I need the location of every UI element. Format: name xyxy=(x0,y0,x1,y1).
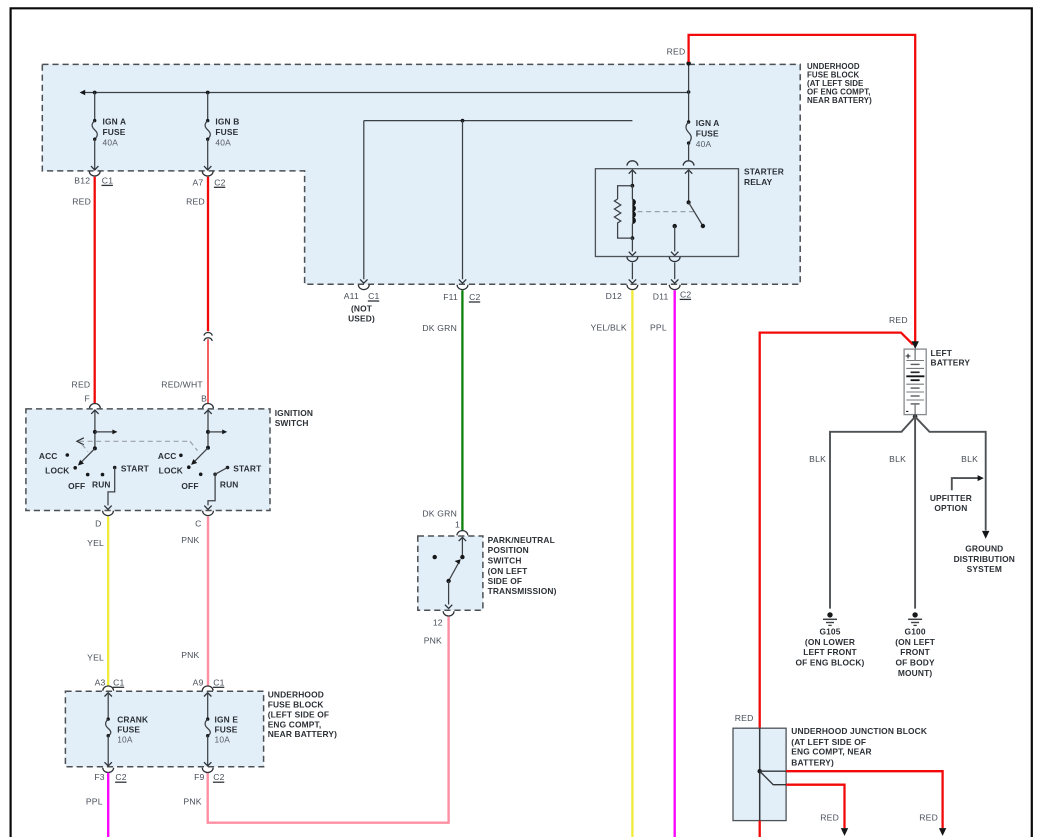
svg-text:40A: 40A xyxy=(215,138,231,148)
svg-text:OFF: OFF xyxy=(181,481,198,491)
ignition switch right half (terminal B to C) xyxy=(158,410,262,510)
svg-text:RED: RED xyxy=(72,380,91,390)
fuse IGN A 40A (left) xyxy=(91,93,126,170)
svg-text:LOCK: LOCK xyxy=(159,466,183,476)
ignition switch linkage (dashed) xyxy=(77,438,198,452)
node: bus corner at IGN A right xyxy=(687,90,691,94)
wire YEL from D to A3 xyxy=(87,517,108,686)
svg-text:C2: C2 xyxy=(115,772,126,782)
relay coil branch xyxy=(629,170,636,256)
svg-text:RELAY: RELAY xyxy=(744,177,773,187)
pin A9 C1 xyxy=(193,677,225,691)
svg-text:C2: C2 xyxy=(469,292,480,302)
svg-text:RED: RED xyxy=(72,196,91,206)
svg-text:UNDERHOOD: UNDERHOOD xyxy=(268,690,324,700)
relay switch branch xyxy=(671,170,705,256)
svg-text:LEFT: LEFT xyxy=(931,348,953,358)
svg-text:C1: C1 xyxy=(368,291,379,301)
svg-text:DISTRIBUTION: DISTRIBUTION xyxy=(954,554,1015,564)
wire RED branch 1 xyxy=(786,771,946,836)
svg-text:ENG COMPT, NEAR: ENG COMPT, NEAR xyxy=(791,747,871,757)
pin D12 xyxy=(606,285,638,301)
svg-text:BLK: BLK xyxy=(809,454,826,464)
svg-text:12: 12 xyxy=(433,618,443,628)
svg-text:YEL: YEL xyxy=(87,538,104,548)
pin A7 C2 xyxy=(192,171,225,187)
svg-text:MOUNT): MOUNT) xyxy=(898,668,932,678)
wire PPL from F3 xyxy=(86,773,108,837)
node F11 tap xyxy=(461,119,465,123)
wire DK GRN from F11 to park/neutral switch pin 1 xyxy=(422,290,462,531)
wire YEL/BLK from D12 xyxy=(591,290,633,837)
svg-text:POSITION: POSITION xyxy=(488,545,529,555)
svg-text:GROUND: GROUND xyxy=(965,544,1003,554)
svg-text:YEL/BLK: YEL/BLK xyxy=(591,323,627,333)
wire RED from junction block up to battery xyxy=(760,315,913,728)
svg-text:40A: 40A xyxy=(103,138,119,148)
wire: relay control line to A11/F11 xyxy=(364,120,633,122)
wire: feed bus inside fuse block xyxy=(80,90,689,95)
svg-text:BATTERY: BATTERY xyxy=(931,358,971,368)
svg-text:D: D xyxy=(95,518,101,528)
svg-text:C1: C1 xyxy=(213,677,224,687)
wire RED branch 2 xyxy=(786,785,848,836)
svg-text:PNK: PNK xyxy=(183,797,201,807)
wire down to A11 xyxy=(360,121,367,284)
svg-text:40A: 40A xyxy=(696,139,712,149)
svg-text:NEAR BATTERY): NEAR BATTERY) xyxy=(807,96,872,105)
svg-text:OPTION: OPTION xyxy=(934,503,967,513)
svg-text:RUN: RUN xyxy=(92,479,111,489)
svg-text:PPL: PPL xyxy=(650,323,667,333)
svg-text:D11: D11 xyxy=(653,291,669,301)
svg-text:PNK: PNK xyxy=(181,535,199,545)
svg-text:OF BODY: OF BODY xyxy=(895,658,934,668)
svg-text:RED: RED xyxy=(735,713,754,723)
wire RED junction block lower exit xyxy=(759,821,761,837)
svg-text:UNDERHOOD JUNCTION BLOCK: UNDERHOOD JUNCTION BLOCK xyxy=(791,726,927,736)
wire PNK from pin 12 routed to F9 xyxy=(208,617,449,823)
fuse IGN A 40A (right) xyxy=(686,63,720,160)
svg-text:NEAR BATTERY): NEAR BATTERY) xyxy=(268,729,337,739)
pin 12 xyxy=(433,611,454,627)
ignition switch left half (terminal F to D) xyxy=(39,410,150,510)
svg-text:C2: C2 xyxy=(214,177,225,187)
svg-text:(LEFT SIDE OF: (LEFT SIDE OF xyxy=(268,710,330,720)
pin F9 C2 xyxy=(194,768,225,783)
svg-text:(NOT: (NOT xyxy=(351,304,373,314)
svg-text:RED: RED xyxy=(889,315,908,325)
svg-text:(ON LOWER: (ON LOWER xyxy=(805,637,855,647)
svg-text:FUSE: FUSE xyxy=(215,127,238,137)
svg-text:RED/WHT: RED/WHT xyxy=(161,380,203,390)
svg-text:FUSE BLOCK: FUSE BLOCK xyxy=(268,700,324,710)
svg-text:IGN E: IGN E xyxy=(215,714,239,724)
ground distribution system arrow xyxy=(954,531,1015,574)
svg-text:PPL: PPL xyxy=(86,797,103,807)
ignition switch block xyxy=(26,409,270,511)
pin bump coil top xyxy=(627,161,638,166)
svg-text:D12: D12 xyxy=(606,291,622,301)
svg-text:LEFT FRONT: LEFT FRONT xyxy=(803,647,857,657)
svg-text:OFF: OFF xyxy=(68,481,85,491)
svg-text:(ON LEFT: (ON LEFT xyxy=(488,566,529,576)
svg-text:F11: F11 xyxy=(443,292,458,302)
svg-text:(ON LEFT: (ON LEFT xyxy=(895,637,936,647)
svg-text:F9: F9 xyxy=(194,772,204,782)
relay coil parallel resistor xyxy=(614,186,632,238)
svg-text:RED: RED xyxy=(820,813,839,823)
node: red feed junction on block edge xyxy=(686,61,691,66)
wire relay switch out to D11 xyxy=(671,263,678,284)
wire BLK battery negative distribution xyxy=(809,415,986,609)
fuse IGN B 40A xyxy=(204,93,239,170)
wire PPL from D11 xyxy=(650,290,675,837)
svg-text:SWITCH: SWITCH xyxy=(275,418,309,428)
wire PNK from C to A9 xyxy=(181,517,208,686)
svg-text:F: F xyxy=(85,393,90,403)
svg-text:RED: RED xyxy=(667,46,686,56)
svg-text:TRANSMISSION): TRANSMISSION) xyxy=(488,586,557,596)
starter relay box xyxy=(595,169,738,257)
svg-text:UPFITTER: UPFITTER xyxy=(930,493,972,503)
svg-text:DK GRN: DK GRN xyxy=(422,323,457,333)
svg-text:IGN A: IGN A xyxy=(696,118,720,128)
pin D xyxy=(95,511,113,529)
svg-text:RED: RED xyxy=(919,813,938,823)
svg-text:ACC: ACC xyxy=(39,451,58,461)
pin A11 C1 (not used) xyxy=(344,285,380,324)
svg-text:A9: A9 xyxy=(193,677,204,687)
fuse IGN E 10A xyxy=(204,692,238,766)
svg-text:C: C xyxy=(195,518,201,528)
svg-text:DK GRN: DK GRN xyxy=(422,509,457,519)
pin bump B xyxy=(203,404,214,409)
svg-text:STARTER: STARTER xyxy=(744,166,784,176)
svg-text:BLK: BLK xyxy=(961,454,978,464)
svg-text:C1: C1 xyxy=(102,175,113,185)
svg-text:1: 1 xyxy=(455,520,460,530)
ground G105 xyxy=(796,612,865,667)
svg-text:(AT LEFT SIDE OF: (AT LEFT SIDE OF xyxy=(791,737,866,747)
svg-text:G100: G100 xyxy=(905,626,926,636)
svg-text:RUN: RUN xyxy=(220,480,239,490)
svg-text:BLK: BLK xyxy=(889,454,906,464)
node: bus tap IGN B xyxy=(206,91,210,95)
left battery xyxy=(904,348,970,417)
svg-text:A7: A7 xyxy=(192,177,203,187)
wire down to F11 xyxy=(459,121,466,284)
svg-text:SYSTEM: SYSTEM xyxy=(967,564,1002,574)
svg-text:USED): USED) xyxy=(348,314,375,324)
wire relay coil out to D12 xyxy=(629,263,636,284)
svg-text:PNK: PNK xyxy=(424,636,442,646)
underhood fuse block (lower, left side of eng compt near battery) xyxy=(65,691,263,767)
svg-text:OF ENG BLOCK): OF ENG BLOCK) xyxy=(796,658,865,668)
svg-text:FRONT: FRONT xyxy=(900,647,930,657)
underhood junction block xyxy=(733,713,927,821)
svg-text:IGN B: IGN B xyxy=(215,117,239,127)
pin D11 C2 xyxy=(653,285,692,302)
park/neutral position switch xyxy=(418,536,483,610)
svg-text:B: B xyxy=(201,393,207,403)
svg-text:ACC: ACC xyxy=(158,451,177,461)
upfitter option tap xyxy=(930,475,984,513)
svg-text:START: START xyxy=(233,464,262,474)
svg-text:PNK: PNK xyxy=(181,650,199,660)
svg-text:C2: C2 xyxy=(213,772,224,782)
wire RED from fuse block to battery (top) xyxy=(667,35,916,342)
svg-text:LOCK: LOCK xyxy=(45,466,69,476)
ground G100 xyxy=(895,612,936,678)
svg-text:PARK/NEUTRAL: PARK/NEUTRAL xyxy=(488,535,555,545)
svg-text:RED: RED xyxy=(186,196,205,206)
svg-text:SIDE OF: SIDE OF xyxy=(488,576,523,586)
svg-text:FUSE: FUSE xyxy=(696,128,719,138)
svg-text:C2: C2 xyxy=(680,289,691,299)
svg-text:SWITCH: SWITCH xyxy=(488,556,522,566)
svg-text:FUSE: FUSE xyxy=(215,724,238,734)
pin 1 xyxy=(455,520,468,536)
svg-text:FUSE: FUSE xyxy=(103,127,126,137)
svg-text:F3: F3 xyxy=(94,772,104,782)
wire RED / RED-WHT from A7 to ignition switch B with break xyxy=(161,177,212,404)
park/neutral switch contacts xyxy=(433,537,467,609)
wire RED from B12 to ignition switch F xyxy=(72,177,95,404)
relay dashed linkage xyxy=(638,211,698,213)
svg-text:FUSE: FUSE xyxy=(117,724,140,734)
node: battery negative xyxy=(913,414,918,419)
svg-text:IGNITION: IGNITION xyxy=(275,408,313,418)
svg-text:A11: A11 xyxy=(344,291,359,301)
svg-text:ENG COMPT,: ENG COMPT, xyxy=(268,719,322,729)
svg-text:B12: B12 xyxy=(74,175,90,185)
pin F11 C2 xyxy=(443,285,480,302)
junction block internal bus xyxy=(758,728,787,820)
pin bump F xyxy=(90,404,101,409)
relay bottom bumps xyxy=(627,257,638,262)
svg-text:G105: G105 xyxy=(819,626,840,636)
pin C xyxy=(195,511,213,529)
battery feed arrow xyxy=(912,341,919,349)
svg-text:C1: C1 xyxy=(113,677,124,687)
svg-text:10A: 10A xyxy=(117,734,133,744)
underhood fuse block (top, at left side of eng compt near battery) xyxy=(42,64,800,284)
svg-text:IGN A: IGN A xyxy=(103,117,127,127)
svg-text:START: START xyxy=(121,464,150,474)
svg-text:YEL: YEL xyxy=(87,653,104,663)
pin B12 C1 xyxy=(74,171,113,185)
fuse CRANK 10A xyxy=(105,692,149,766)
svg-text:A3: A3 xyxy=(95,677,106,687)
node: bus tap IGN A xyxy=(93,91,97,95)
svg-text:10A: 10A xyxy=(215,734,231,744)
svg-text:-: - xyxy=(906,406,909,417)
svg-text:BATTERY): BATTERY) xyxy=(791,758,834,768)
svg-text:CRANK: CRANK xyxy=(117,714,148,724)
pin F3 C2 xyxy=(94,768,126,783)
pin A3 C1 xyxy=(95,677,125,691)
pin bump switch top xyxy=(683,161,694,166)
